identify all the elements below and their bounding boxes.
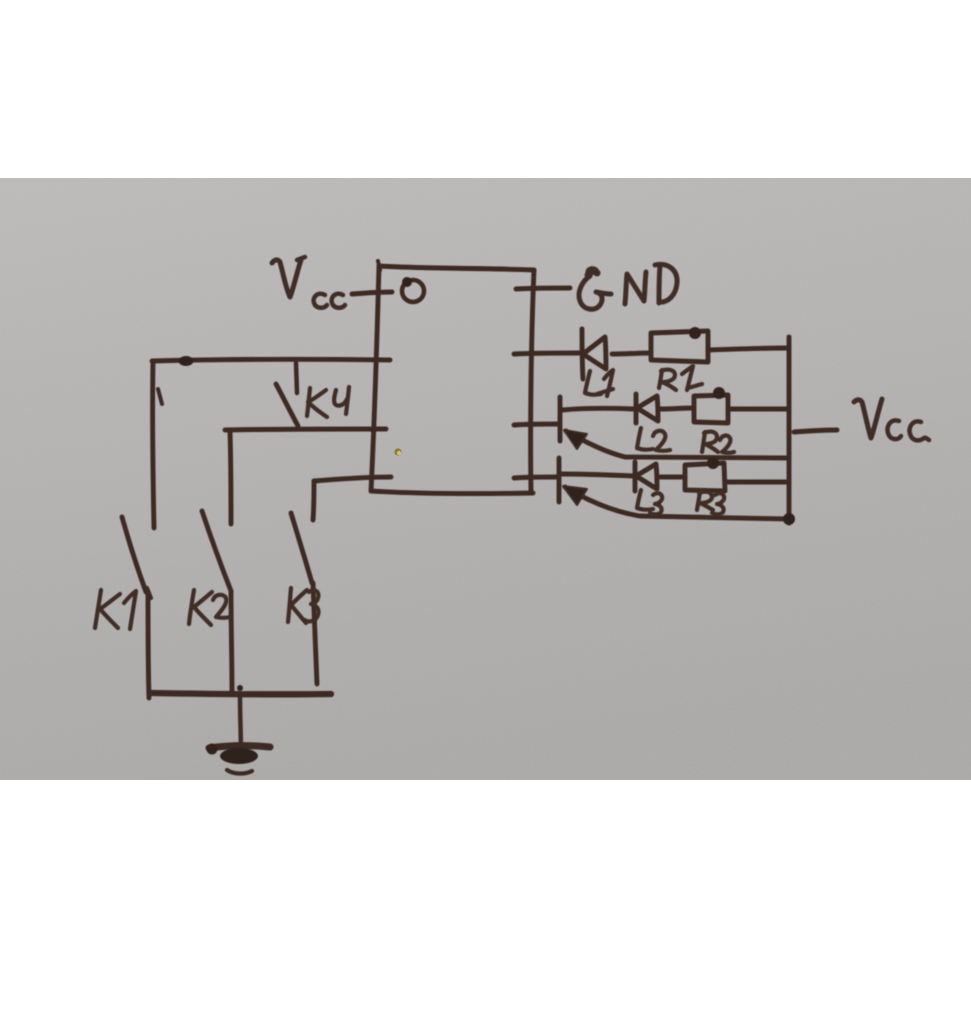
transistor Q3 bar [557, 458, 562, 502]
switch K4 blade [276, 384, 298, 426]
wire K1 lower vertical [148, 592, 149, 698]
LED L3 cathode bar [633, 462, 638, 491]
wire L2 to R2 [661, 408, 694, 409]
ground blob [220, 748, 258, 764]
LED L2 cathode bar [634, 394, 639, 423]
label L3 [637, 490, 662, 514]
label K4 [307, 387, 349, 417]
wire R1 to bus [708, 348, 789, 350]
yellow speck [394, 448, 401, 455]
label Vcc right [854, 399, 929, 440]
wire pin row1 right [514, 353, 580, 354]
label R2 [702, 432, 734, 453]
wire pin row3 stub [514, 477, 557, 478]
switch K4 tick [296, 363, 297, 393]
label K2 [189, 590, 230, 625]
wire pin row2 stub [514, 424, 558, 425]
LED L1 triangle [583, 337, 606, 369]
transistor Q2 bar [558, 397, 563, 441]
wire tick on bus [158, 389, 162, 404]
labels group [95, 257, 929, 629]
switch K2 blade [202, 511, 231, 591]
wire pin2 horizontal [225, 429, 386, 430]
LED L1 cathode bar [582, 329, 583, 379]
inverter bubble o [402, 280, 424, 302]
resistor R2 [694, 395, 728, 423]
wire top-left bus to pin [152, 359, 390, 361]
wire left bus vertical [153, 361, 154, 528]
wire bottom bus [150, 693, 331, 694]
label R3 [697, 492, 724, 515]
label K3 [288, 588, 319, 623]
switch K1 blade [122, 517, 146, 592]
transistor Q2 emitter arrow [566, 431, 788, 458]
node junction dot [179, 356, 194, 366]
label L1 [585, 370, 613, 396]
wire K1 blade notch [147, 588, 151, 598]
label Vcc left [272, 257, 345, 308]
label GND [579, 264, 677, 309]
wire L1 to R1 [612, 353, 651, 354]
ground stem [240, 697, 241, 757]
label R1 [659, 366, 702, 390]
paper background [0, 178, 971, 780]
wire R2 to bus [728, 407, 789, 412]
wire pin3 horizontal [314, 477, 391, 481]
IC box U1 [371, 266, 534, 494]
LED L3 triangle [636, 464, 657, 489]
wire K2 upper vertical [230, 432, 231, 524]
label L2 [637, 428, 670, 451]
wire K2 lower vertical [231, 591, 232, 694]
wire R3 to bus [725, 480, 789, 485]
wire K3 upper vertical [313, 481, 314, 520]
node dot above bus [237, 685, 243, 691]
wire Vcc stub to pin 1 [352, 292, 392, 294]
wire L3 to R3 [660, 475, 685, 480]
resistor R1 [651, 331, 708, 362]
transistor Q3 emitter arrow [565, 487, 789, 519]
wire Q2 collector to L2 [562, 408, 634, 410]
switch K3 blade [291, 513, 312, 583]
ground bar 2 [227, 770, 252, 774]
wire box top-left overshoot [378, 261, 380, 270]
LED L2 triangle [637, 396, 658, 421]
resistor R3 [685, 463, 725, 491]
wire Q3 collector to L3 [561, 474, 634, 476]
wire right bus vertical [787, 337, 792, 523]
ground bar 1 [209, 746, 270, 748]
wire K3 lower vertical [313, 583, 317, 684]
wire Vcc stub right [794, 430, 837, 432]
label K1 [95, 590, 136, 629]
wire GND stub [516, 288, 570, 289]
